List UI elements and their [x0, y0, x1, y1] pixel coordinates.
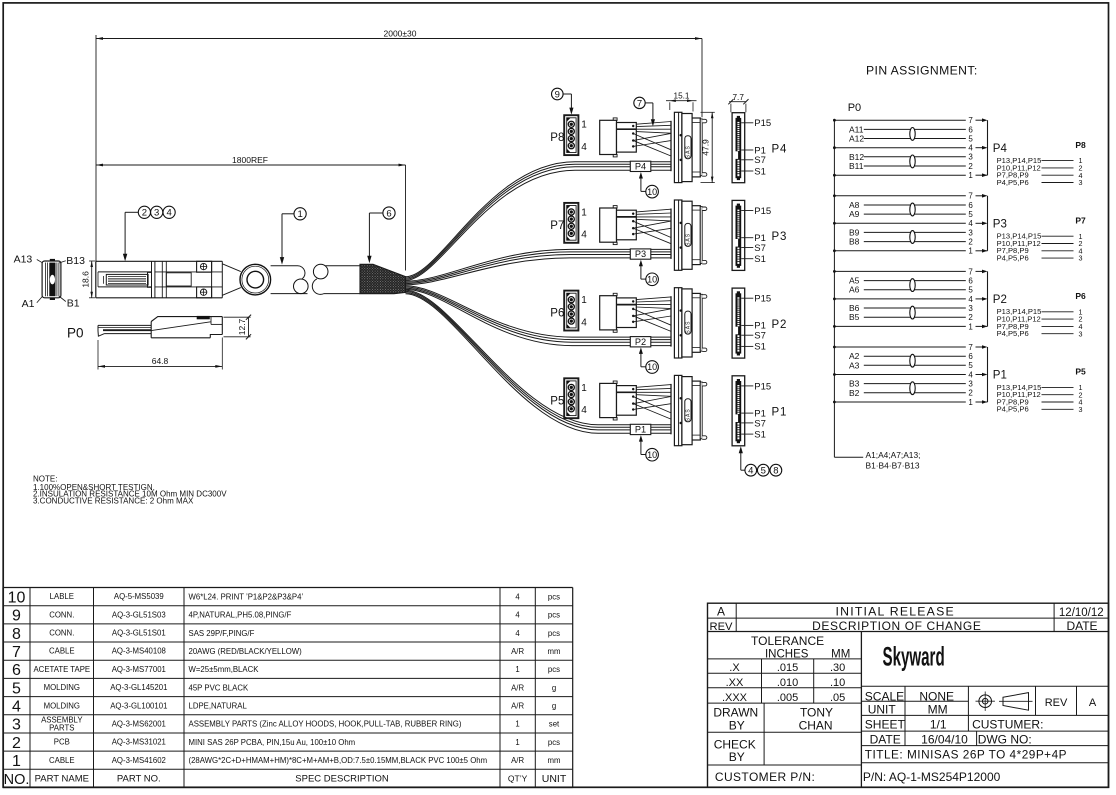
svg-text:4: 4	[515, 592, 520, 601]
svg-text:1: 1	[581, 383, 587, 394]
svg-text:A6: A6	[849, 285, 860, 295]
svg-text:P3: P3	[993, 219, 1007, 231]
svg-text:1: 1	[515, 738, 519, 747]
svg-text:2: 2	[12, 735, 21, 752]
svg-text:mm: mm	[548, 647, 561, 656]
svg-text:4: 4	[515, 629, 520, 638]
svg-text:2: 2	[968, 389, 973, 398]
svg-text:SAS: SAS	[686, 233, 692, 246]
svg-text:1: 1	[581, 120, 587, 131]
svg-text:1: 1	[968, 171, 973, 180]
svg-text:P8: P8	[550, 132, 564, 144]
svg-text:A13: A13	[14, 254, 33, 266]
svg-text:REV: REV	[1045, 697, 1068, 709]
svg-text:P1: P1	[993, 370, 1007, 382]
svg-text:CONN.: CONN.	[49, 610, 74, 619]
svg-text:P6: P6	[550, 308, 564, 320]
svg-text:UNIT: UNIT	[542, 773, 567, 785]
svg-text:AQ-3-GL51S03: AQ-3-GL51S03	[112, 610, 166, 619]
svg-text:A/R: A/R	[511, 702, 524, 711]
svg-text:PART NO.: PART NO.	[117, 773, 161, 784]
svg-text:3: 3	[1079, 178, 1083, 187]
svg-text:P1: P1	[772, 407, 788, 419]
svg-text:P2: P2	[635, 337, 646, 347]
svg-text:16/04/10: 16/04/10	[921, 732, 968, 746]
svg-text:7: 7	[968, 343, 973, 352]
svg-text:P3: P3	[635, 249, 646, 259]
svg-text:CUSTUMER:: CUSTUMER:	[972, 717, 1043, 731]
svg-text:4: 4	[968, 370, 973, 379]
svg-text:AQ-3-GL51S01: AQ-3-GL51S01	[112, 629, 166, 638]
svg-text:P15: P15	[754, 294, 771, 305]
svg-text:1: 1	[515, 720, 519, 729]
svg-text:4: 4	[12, 699, 21, 716]
svg-text:45P PVC BLACK: 45P PVC BLACK	[189, 683, 249, 692]
svg-text:Skyward: Skyward	[883, 641, 945, 672]
svg-text:B1·B4·B7·B13: B1·B4·B7·B13	[866, 461, 920, 471]
svg-text:6: 6	[968, 352, 973, 361]
svg-text:CABLE: CABLE	[49, 756, 75, 765]
svg-text:W=25±5mm,BLACK: W=25±5mm,BLACK	[189, 665, 260, 674]
svg-text:2: 2	[968, 162, 973, 171]
svg-text:3: 3	[1079, 405, 1083, 414]
svg-text:4P,NATURAL,PH5.08,PING/F: 4P,NATURAL,PH5.08,PING/F	[189, 611, 292, 620]
svg-text:A/R: A/R	[511, 683, 524, 692]
svg-text:pcs: pcs	[548, 629, 560, 638]
svg-text:LABLE: LABLE	[50, 592, 74, 601]
svg-text:DRAWN: DRAWN	[713, 705, 758, 719]
svg-text:4: 4	[515, 611, 520, 620]
svg-text:1: 1	[581, 295, 587, 306]
svg-text:3: 3	[1079, 254, 1083, 263]
svg-text:3: 3	[968, 228, 973, 237]
svg-text:g: g	[552, 702, 556, 711]
svg-text:ACETATE TAPE: ACETATE TAPE	[33, 665, 90, 674]
svg-text:W6*L24. PRINT ’P1&P2&P3&P4’: W6*L24. PRINT ’P1&P2&P3&P4’	[189, 592, 304, 601]
svg-text:5: 5	[968, 210, 973, 219]
svg-text:set: set	[549, 720, 560, 729]
svg-text:1: 1	[968, 247, 973, 256]
svg-text:4: 4	[581, 230, 587, 241]
svg-text:AQ-3-MS41602: AQ-3-MS41602	[112, 756, 166, 765]
svg-text:A: A	[717, 604, 725, 618]
svg-text:8: 8	[12, 626, 21, 643]
svg-text:SAS: SAS	[686, 145, 692, 158]
svg-text:P/N: AQ-1-MS254P12000: P/N: AQ-1-MS254P12000	[863, 770, 1001, 784]
svg-text:CHAN: CHAN	[799, 719, 833, 733]
svg-text:AQ-3-GL145201: AQ-3-GL145201	[110, 683, 167, 692]
svg-text:QT’Y: QT’Y	[508, 773, 528, 783]
svg-text:7.7: 7.7	[733, 93, 745, 102]
svg-text:.05: .05	[830, 692, 845, 704]
svg-text:MOLDING: MOLDING	[44, 683, 80, 692]
svg-text:.015: .015	[777, 662, 798, 674]
svg-text:15.1: 15.1	[674, 92, 690, 101]
svg-text:MINI SAS 26P PCBA, PIN,15u Au,: MINI SAS 26P PCBA, PIN,15u Au, 100±10 Oh…	[189, 738, 356, 747]
svg-text:ASSEMBLY PARTS (Zinc ALLOY HOO: ASSEMBLY PARTS (Zinc ALLOY HOODS, HOOK,P…	[189, 720, 462, 729]
svg-text:2: 2	[968, 238, 973, 247]
svg-text:SPEC DESCRIPTION: SPEC DESCRIPTION	[295, 773, 389, 784]
svg-text:B2: B2	[849, 388, 860, 398]
svg-text:4: 4	[748, 466, 753, 477]
svg-text:P4,P5,P6: P4,P5,P6	[997, 178, 1029, 187]
svg-text:g: g	[552, 683, 556, 692]
svg-text:A/R: A/R	[511, 756, 524, 765]
svg-text:SAS: SAS	[686, 321, 692, 334]
svg-text:4: 4	[968, 295, 973, 304]
svg-text:.X: .X	[729, 662, 740, 674]
svg-text:DATE: DATE	[870, 732, 901, 746]
svg-text:P2: P2	[993, 294, 1007, 306]
svg-text:INITIAL RELEASE: INITIAL RELEASE	[836, 605, 955, 619]
svg-text:A/R: A/R	[511, 647, 524, 656]
svg-text:DATE: DATE	[1066, 619, 1097, 633]
svg-text:B1: B1	[67, 297, 80, 309]
svg-text:A12: A12	[849, 134, 864, 144]
svg-text:P7: P7	[550, 220, 564, 232]
svg-text:4: 4	[968, 144, 973, 153]
svg-text:UNIT: UNIT	[868, 702, 897, 716]
svg-text:5: 5	[968, 134, 973, 143]
svg-text:NO.: NO.	[4, 772, 30, 788]
svg-text:6: 6	[968, 201, 973, 210]
svg-text:P6: P6	[1075, 291, 1086, 301]
svg-text:AQ-3-GL100101: AQ-3-GL100101	[110, 701, 167, 710]
svg-text:1: 1	[297, 209, 302, 220]
svg-text:4: 4	[581, 405, 587, 416]
svg-text:7: 7	[968, 116, 973, 125]
svg-text:SAS: SAS	[686, 408, 692, 421]
svg-text:A: A	[1089, 697, 1097, 709]
svg-text:A9: A9	[849, 209, 860, 219]
svg-text:5: 5	[761, 466, 766, 477]
svg-text:5: 5	[12, 680, 21, 697]
svg-text:P4,P5,P6: P4,P5,P6	[997, 254, 1029, 263]
svg-text:(28AWG*2C+D+HMAM+HM)*8C+M+AM+B: (28AWG*2C+D+HMAM+HM)*8C+M+AM+B,OD:7.5±0.…	[189, 756, 488, 765]
svg-text:.10: .10	[830, 677, 845, 689]
svg-text:10: 10	[647, 450, 657, 460]
svg-text:3: 3	[1079, 329, 1083, 338]
svg-text:A1;A4;A7;A13;: A1;A4;A7;A13;	[866, 450, 921, 460]
svg-text:DWG NO:: DWG NO:	[978, 732, 1032, 746]
svg-text:MOLDING: MOLDING	[44, 701, 80, 710]
svg-text:LDPE,NATURAL: LDPE,NATURAL	[189, 702, 248, 711]
svg-text:2: 2	[142, 208, 147, 219]
svg-text:9: 9	[555, 89, 560, 100]
svg-text:CABLE: CABLE	[49, 647, 75, 656]
svg-text:5: 5	[968, 286, 973, 295]
svg-text:P4: P4	[772, 143, 788, 155]
svg-text:BY: BY	[729, 750, 745, 764]
svg-text:10: 10	[8, 589, 26, 606]
svg-text:S1: S1	[754, 254, 766, 265]
svg-text:CUSTOMER P/N:: CUSTOMER P/N:	[715, 770, 815, 784]
svg-text:pcs: pcs	[548, 592, 560, 601]
svg-text:P5: P5	[550, 395, 564, 407]
svg-text:AQ-3-MS40108: AQ-3-MS40108	[112, 647, 166, 656]
svg-text:1: 1	[968, 322, 973, 331]
svg-text:AQ-5-MS5039: AQ-5-MS5039	[114, 592, 164, 601]
svg-text:1800REF: 1800REF	[232, 155, 268, 165]
svg-text:2: 2	[968, 313, 973, 322]
svg-text:P1: P1	[635, 425, 646, 435]
svg-text:8: 8	[773, 466, 778, 477]
svg-text:S7: S7	[754, 418, 766, 429]
svg-text:6: 6	[386, 208, 391, 219]
svg-text:P4,P5,P6: P4,P5,P6	[997, 405, 1029, 414]
svg-text:3: 3	[968, 153, 973, 162]
svg-text:pcs: pcs	[548, 738, 560, 747]
svg-text:7: 7	[968, 192, 973, 201]
svg-text:P8: P8	[1075, 140, 1086, 150]
svg-text:NONE: NONE	[919, 689, 954, 703]
svg-text:12/10/12: 12/10/12	[1059, 607, 1104, 619]
svg-text:P5: P5	[1075, 367, 1086, 377]
svg-text:S1: S1	[754, 429, 766, 440]
svg-text:3.CONDUCTIVE RESISTANCE: 2 Ohm: 3.CONDUCTIVE RESISTANCE: 2 Ohm MAX	[33, 496, 194, 505]
svg-text:P2: P2	[772, 319, 788, 331]
svg-text:4: 4	[581, 142, 587, 153]
svg-text:B5: B5	[849, 312, 860, 322]
svg-text:3: 3	[154, 208, 159, 219]
svg-text:1: 1	[581, 207, 587, 218]
svg-text:AQ-3-MS77001: AQ-3-MS77001	[112, 665, 166, 674]
svg-text:P4,P5,P6: P4,P5,P6	[997, 329, 1029, 338]
svg-text:1/1: 1/1	[930, 717, 947, 731]
svg-text:20AWG (RED/BLACK/YELLOW): 20AWG (RED/BLACK/YELLOW)	[189, 647, 303, 656]
svg-text:1: 1	[515, 665, 519, 674]
svg-text:S1: S1	[754, 166, 766, 177]
svg-text:P3: P3	[772, 231, 788, 243]
svg-text:18.6: 18.6	[80, 271, 90, 288]
svg-text:pcs: pcs	[548, 611, 560, 620]
svg-text:12.7: 12.7	[237, 318, 247, 335]
svg-text:9: 9	[12, 608, 21, 625]
svg-text:BY: BY	[729, 719, 745, 733]
svg-text:B13: B13	[66, 255, 85, 267]
svg-text:10: 10	[647, 275, 657, 285]
svg-text:S7: S7	[754, 155, 766, 166]
svg-text:3: 3	[12, 717, 21, 734]
svg-text:1: 1	[12, 753, 21, 770]
svg-text:TONY: TONY	[800, 705, 833, 719]
svg-text:7: 7	[12, 644, 21, 661]
svg-text:P4: P4	[993, 143, 1008, 155]
svg-text:6: 6	[968, 277, 973, 286]
svg-text:PART NAME: PART NAME	[35, 773, 89, 784]
svg-text:.005: .005	[777, 692, 798, 704]
svg-text:PARTS: PARTS	[49, 723, 74, 732]
svg-text:S7: S7	[754, 331, 766, 342]
svg-text:P0: P0	[848, 102, 861, 114]
svg-text:PIN ASSIGNMENT:: PIN ASSIGNMENT:	[866, 64, 978, 78]
svg-text:P7: P7	[1075, 215, 1086, 225]
svg-text:5: 5	[968, 361, 973, 370]
svg-text:P0: P0	[67, 326, 84, 341]
svg-text:10: 10	[647, 187, 657, 197]
svg-text:B11: B11	[849, 161, 864, 171]
svg-text:1: 1	[968, 398, 973, 407]
svg-text:3: 3	[968, 380, 973, 389]
svg-text:4: 4	[581, 317, 587, 328]
svg-text:AQ-3-MS31021: AQ-3-MS31021	[112, 738, 166, 747]
svg-text:64.8: 64.8	[152, 356, 169, 366]
svg-text:6: 6	[968, 125, 973, 134]
svg-text:A3: A3	[849, 360, 860, 370]
svg-text:mm: mm	[548, 756, 561, 765]
svg-text:.010: .010	[777, 677, 798, 689]
svg-text:P15: P15	[754, 381, 771, 392]
svg-text:SHEET: SHEET	[865, 717, 906, 731]
svg-text:4: 4	[166, 208, 171, 219]
svg-text:2000±30: 2000±30	[383, 28, 416, 38]
svg-text:TOLERANCE: TOLERANCE	[751, 634, 824, 648]
svg-text:S1: S1	[754, 342, 766, 353]
svg-text:SAS 29P/F,PING/F: SAS 29P/F,PING/F	[189, 629, 255, 638]
svg-text:A1: A1	[22, 298, 35, 310]
svg-text:3: 3	[968, 304, 973, 313]
svg-text:P15: P15	[754, 118, 771, 129]
svg-text:MM: MM	[928, 702, 948, 716]
svg-text:TITLE: MINISAS 26P TO 4*29P+4P: TITLE: MINISAS 26P TO 4*29P+4P	[865, 748, 1067, 762]
svg-text:DESCRIPTION OF CHANGE: DESCRIPTION OF CHANGE	[812, 619, 981, 633]
svg-text:7: 7	[968, 267, 973, 276]
svg-text:SCALE: SCALE	[865, 689, 904, 703]
svg-text:47.9: 47.9	[701, 139, 711, 156]
svg-text:B8: B8	[849, 237, 860, 247]
svg-text:PCB: PCB	[54, 738, 70, 747]
svg-text:6: 6	[12, 662, 21, 679]
svg-text:.XX: .XX	[726, 677, 744, 689]
svg-text:4: 4	[968, 219, 973, 228]
svg-text:S7: S7	[754, 243, 766, 254]
svg-text:REV: REV	[709, 621, 733, 633]
svg-text:.XXX: .XXX	[722, 692, 748, 704]
svg-text:10: 10	[647, 362, 657, 372]
svg-text:P4: P4	[635, 161, 646, 171]
svg-text:CONN.: CONN.	[49, 629, 74, 638]
svg-text:pcs: pcs	[548, 665, 560, 674]
svg-text:.30: .30	[830, 662, 845, 674]
svg-text:7: 7	[637, 98, 642, 109]
svg-text:P15: P15	[754, 206, 771, 217]
svg-text:AQ-3-MS62001: AQ-3-MS62001	[112, 720, 166, 729]
